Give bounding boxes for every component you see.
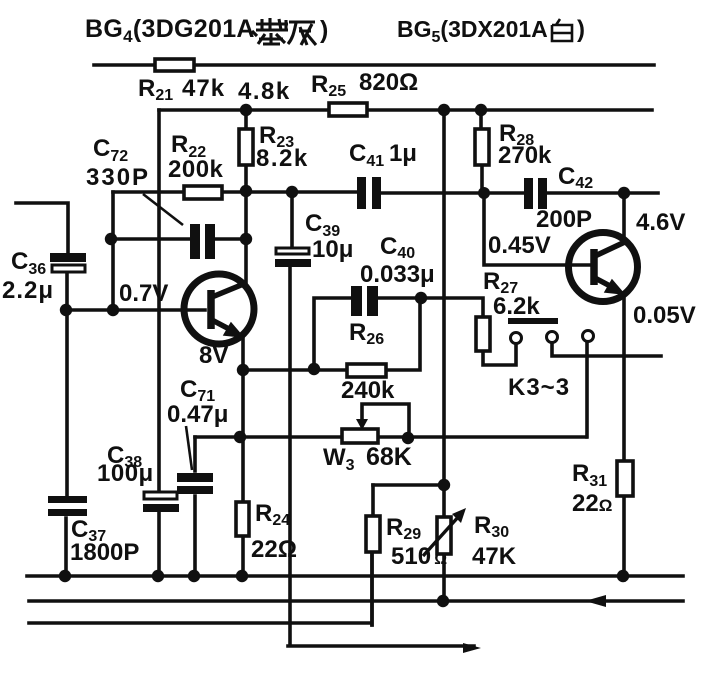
capacitor C72 plates (190, 224, 200, 259)
switch K3-3 contact 1 (511, 333, 522, 344)
svg-text:R29: R29 (386, 514, 421, 543)
svg-text:10μ: 10μ (312, 236, 353, 263)
svg-text:W3: W3 (323, 444, 355, 474)
wire switch contact2 to right stub (552, 343, 661, 356)
capacitor C41 plates (357, 177, 366, 209)
svg-text:C40: C40 (380, 233, 415, 262)
svg-text:): ) (577, 16, 585, 43)
capacitor C39 bottom plate (275, 259, 311, 267)
resistor R29 (366, 516, 380, 552)
svg-text:68K: 68K (366, 443, 412, 471)
wire second rail line2 (159, 108, 652, 112)
svg-text:0.05V: 0.05V (633, 302, 696, 329)
hanzi bai (white) title2 (552, 19, 572, 41)
junction dot base wire x113 (107, 304, 119, 316)
wire R28 vertical (481, 110, 482, 193)
wire C41-C42 signal line y193 (246, 192, 624, 193)
svg-text:2.2μ: 2.2μ (2, 277, 54, 304)
capacitor C36 top plate (50, 253, 86, 262)
wire vertical from line2 down through C38 to ground bus (157, 110, 161, 574)
wire BG5 collector lead (622, 193, 626, 241)
wire C36-C37 vertical x66 (16, 203, 68, 574)
resistor R30 (437, 517, 451, 554)
resistor R21 (155, 59, 194, 71)
capacitor C39 top plate hollow (276, 248, 309, 254)
svg-text:): ) (320, 16, 328, 44)
junction dot R22 line / collector vertical (240, 185, 252, 197)
wire long vertical x444 from line2 to bus2 (442, 110, 446, 601)
resistor R27 (476, 317, 490, 351)
svg-text:820Ω: 820Ω (359, 69, 418, 96)
junction dot bus1 C38 (152, 570, 164, 582)
svg-text:100μ: 100μ (97, 460, 154, 487)
resistor R26 (347, 364, 386, 377)
wire BG4 emitter vertical down through R24 (241, 337, 245, 573)
svg-text:C41 1μ: C41 1μ (349, 140, 417, 170)
svg-text:R21: R21 (138, 75, 173, 104)
pointer line from C71 label to capacitor (186, 426, 192, 470)
svg-text:330P: 330P (86, 164, 150, 191)
capacitor C36 bottom plate hollow (52, 265, 85, 272)
arrow on bus2 pointing left (585, 595, 606, 607)
wire stub right of C42 node (624, 191, 658, 195)
wire ground bus1 (27, 574, 683, 578)
switch K3-3 contact 3 (583, 331, 594, 342)
capacitor C71 plates (177, 473, 213, 482)
wire switch contact3 stem down to W3 line (585, 342, 589, 437)
wire W3 wiper loop (362, 404, 409, 438)
svg-text:C42: C42 (558, 163, 593, 192)
junction dot C42 right / BG5 collector (618, 187, 630, 199)
capacitor C38 bottom plate (143, 504, 179, 512)
svg-text:BG4(3DG201A: BG4(3DG201A (85, 15, 255, 46)
wire bus2 (29, 599, 683, 603)
svg-text:6.2k: 6.2k (493, 293, 540, 320)
svg-text:47k: 47k (182, 75, 225, 102)
svg-text:R30: R30 (474, 512, 509, 541)
junction dot C72 right (240, 233, 252, 245)
pointer line from C72 label to capacitor (143, 194, 183, 225)
switch K3-3 contact 2 (547, 332, 558, 343)
switch blade bar (508, 318, 558, 324)
transistor BG4 (184, 274, 254, 344)
junction dot W3 wiper return (402, 432, 414, 444)
junction dot line2/R28 (475, 104, 487, 116)
svg-text:R24: R24 (255, 500, 290, 529)
hanzi zi-hui (purple-gray) title1 (252, 18, 316, 45)
rheostat R30 adjustment arrow (423, 515, 460, 556)
junction dot line2/x444 (438, 104, 450, 116)
svg-text:4.6V: 4.6V (636, 209, 685, 236)
junction dot bus1 R31 (617, 570, 629, 582)
svg-text:0.033μ: 0.033μ (360, 261, 435, 288)
junction dot bus1 C37 (59, 570, 71, 582)
wire C72 feedback line y239 (111, 237, 246, 241)
svg-text:200P: 200P (536, 206, 592, 233)
junction dot x444 / R29 link (438, 479, 450, 491)
wire R29-R30 top link y485 (373, 483, 444, 487)
wire BG5 emitter vertical through R31 (622, 295, 626, 580)
svg-text:240k: 240k (341, 377, 395, 404)
wire W3 line y437 (195, 435, 586, 439)
svg-text:BG5(3DX201A: BG5(3DX201A (397, 16, 548, 46)
svg-text:270k: 270k (498, 142, 552, 169)
junction dot C72 left (105, 233, 117, 245)
svg-text:8V: 8V (199, 342, 228, 369)
wire C71 branch (193, 437, 197, 573)
wire BG5 base lead (484, 193, 590, 265)
junction dot R26 left node (308, 363, 320, 375)
wire R27 bottom to switch contact 1 (483, 344, 516, 365)
svg-text:4.8k: 4.8k (238, 78, 291, 105)
junction dot W3 line / emitter vertical (234, 431, 246, 443)
svg-text:R31: R31 (572, 460, 607, 490)
junction dot R28 bottom node (478, 187, 490, 199)
wire R26/C40 left node (243, 298, 421, 370)
wire top rail line1 (94, 63, 654, 67)
junction dot line2/R23 (240, 104, 252, 116)
junction dot emitter / R26 node (237, 364, 249, 376)
svg-text:8.2k: 8.2k (256, 145, 309, 172)
potentiometer W3 body (342, 429, 378, 443)
svg-text:22Ω: 22Ω (572, 490, 612, 517)
svg-text:0.47μ: 0.47μ (167, 401, 228, 428)
junction dot bus2 R30 (437, 595, 449, 607)
svg-text:C72: C72 (93, 135, 128, 165)
svg-text:R25: R25 (311, 71, 346, 100)
capacitor C40 plates (351, 286, 362, 316)
wire R22 line (113, 190, 246, 194)
wire C39 vertical and bottom stub line4 (288, 192, 474, 646)
capacitor C42 plates (524, 178, 533, 209)
capacitor C38 top plate hollow (144, 492, 177, 499)
junction dot bus1 C71 (188, 570, 200, 582)
junction dot C40 right node (415, 292, 427, 304)
svg-text:47K: 47K (472, 543, 517, 570)
arrow at right end of line4 (463, 643, 481, 653)
wire C40 node to R27 (421, 298, 483, 317)
resistor R28 (475, 129, 489, 165)
svg-text:C36: C36 (11, 248, 46, 278)
svg-text:200k: 200k (168, 156, 224, 183)
potentiometer W3 wiper arrow (356, 419, 368, 430)
junction dot base wire left (60, 304, 72, 316)
svg-text:K3~3: K3~3 (508, 374, 570, 401)
resistor R24 (236, 502, 249, 536)
wire vertical x113 from R22 line to base wire (111, 192, 115, 310)
wire BG4 base line y310 (66, 308, 205, 312)
transistor BG5 (569, 233, 638, 302)
svg-text:R26: R26 (349, 319, 384, 348)
capacitor C37 plates (48, 496, 87, 503)
svg-text:0.45V: 0.45V (488, 232, 551, 259)
wire R23/BG4-collector vertical (244, 110, 248, 284)
junction dot bus1 R24 (236, 570, 248, 582)
resistor R22 (184, 186, 222, 199)
svg-text:1800P: 1800P (70, 539, 139, 566)
resistor R25 (329, 103, 367, 116)
svg-text:22Ω: 22Ω (251, 536, 297, 563)
wire R29 vertical with bottom corner to line3 (372, 485, 373, 625)
wire bus3 left (29, 552, 372, 625)
resistor R23 (239, 129, 253, 165)
resistor R31 (617, 461, 633, 496)
svg-text:0.7V: 0.7V (119, 280, 168, 307)
junction dot C39 top (286, 186, 298, 198)
